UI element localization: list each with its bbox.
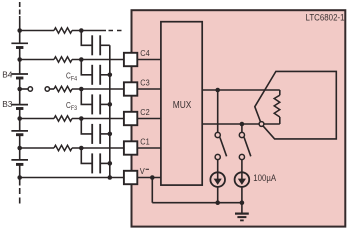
svg-text:B3: B3 xyxy=(2,99,12,109)
node CF4 return xyxy=(108,73,113,78)
ADC input pentagon xyxy=(255,71,336,138)
wire pin C3 to MUX xyxy=(137,88,161,90)
wire V- down to ground rail xyxy=(151,178,153,203)
node row C1 / rail xyxy=(17,146,22,151)
node CS1 on rail xyxy=(215,200,220,205)
svg-text:C2: C2 xyxy=(140,107,150,117)
resistor RIN xyxy=(274,90,280,124)
node row C4 / cap tap xyxy=(79,57,84,62)
wire pin C1 to MUX xyxy=(137,147,161,149)
svg-text:LTC6802-1: LTC6802-1 xyxy=(306,12,345,22)
node row C2 / cap tap xyxy=(79,116,84,121)
current source I2 xyxy=(235,172,250,202)
svg-text:C4: C4 xyxy=(140,48,150,58)
wire pin C4 to MUX xyxy=(137,59,161,61)
node row C1 / cap tap xyxy=(79,146,84,151)
IC body LTC6802-1 xyxy=(132,10,346,226)
wire circle to resistor RIN bottom xyxy=(264,123,280,125)
capacitor CF1 xyxy=(81,148,110,173)
battery B1 xyxy=(11,160,28,165)
common cap return wire xyxy=(109,45,111,177)
battery B5 xyxy=(11,43,28,47)
node CF3 return xyxy=(108,102,113,107)
switch S1 xyxy=(215,90,227,173)
capacitor CF3 xyxy=(81,89,110,114)
pin V- xyxy=(124,171,137,184)
resistor RF1 xyxy=(54,145,72,150)
node row C2 / rail xyxy=(17,116,22,121)
pin C1 xyxy=(124,141,137,154)
battery B2 xyxy=(11,131,28,135)
node common cap return on V- xyxy=(108,175,113,180)
row C4: wire xyxy=(20,59,54,61)
node row C3 / cap tap xyxy=(79,87,84,92)
MUX output wire upper xyxy=(203,89,280,91)
node switch S1 tap xyxy=(215,88,220,93)
svg-text:C3: C3 xyxy=(140,78,150,88)
current source I1 xyxy=(210,172,225,202)
battery B3 xyxy=(11,105,28,109)
svg-text:100µA: 100µA xyxy=(253,173,276,183)
row V-: wire xyxy=(20,177,124,179)
node row C3 / rail xyxy=(17,87,22,92)
node CF2 return xyxy=(108,132,113,137)
capacitor CF2 xyxy=(81,119,110,144)
pin C2 xyxy=(124,112,137,125)
node V- branch xyxy=(150,175,155,180)
wire to pin C3 xyxy=(72,88,124,90)
ground rail wire xyxy=(152,202,242,204)
connector terminal left xyxy=(28,87,32,91)
wire to pin C2 xyxy=(72,118,124,120)
capacitor CF4 xyxy=(81,60,110,85)
wire pin V- to MUX xyxy=(137,177,161,179)
wire pin C2 to MUX xyxy=(137,118,161,120)
wire to pin C4 xyxy=(72,59,124,61)
pin C4 xyxy=(124,53,137,66)
wire to pin C1 xyxy=(72,147,124,149)
node row C5 / rail xyxy=(17,28,22,33)
svg-text:C1: C1 xyxy=(140,137,150,147)
MUX U1 xyxy=(161,22,202,185)
wire xyxy=(50,88,55,90)
svg-text:B4: B4 xyxy=(2,70,12,80)
svg-text:F3: F3 xyxy=(71,106,78,112)
wire to dashed continuation xyxy=(72,30,106,32)
node CF1 return xyxy=(108,161,113,166)
resistor RF4 xyxy=(54,57,72,62)
resistor RF2 xyxy=(54,116,72,121)
svg-text:F4: F4 xyxy=(71,76,78,82)
connector terminal right xyxy=(45,87,49,91)
ground xyxy=(235,203,249,221)
node row C4 / rail xyxy=(17,57,22,62)
node row V- / rail xyxy=(17,175,22,180)
dashed continuation up-stack xyxy=(109,30,122,32)
node CS2 / ground on rail xyxy=(240,200,245,205)
battery stack rail xyxy=(19,2,21,204)
switch S2 xyxy=(239,124,251,173)
node switch S2 tap xyxy=(240,122,245,127)
svg-text:MUX: MUX xyxy=(173,100,192,111)
pin C3 xyxy=(124,82,137,95)
resistor RF5 xyxy=(54,28,72,33)
capacitor CF5 xyxy=(81,31,110,56)
resistor RF3 xyxy=(54,86,72,91)
sample switch contact circle xyxy=(259,122,264,127)
row C2: wire xyxy=(20,118,54,120)
MUX output wire lower xyxy=(203,123,260,125)
row C3: wire stub xyxy=(20,88,28,90)
node row C5 / cap tap xyxy=(79,28,84,33)
battery B4 xyxy=(11,74,28,78)
row C5: wire xyxy=(20,30,54,32)
svg-text:V: V xyxy=(140,166,145,176)
row C1: wire xyxy=(20,147,54,149)
